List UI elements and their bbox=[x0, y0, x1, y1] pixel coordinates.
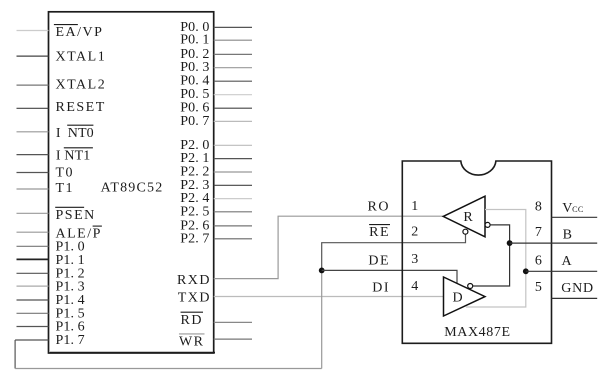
wire DE run bbox=[322, 270, 457, 283]
svg-text:I: I bbox=[56, 148, 62, 163]
wire P1.7 vertical bbox=[14, 340, 16, 369]
svg-text:TXD: TXD bbox=[178, 291, 211, 306]
wire P0.0 stub bbox=[214, 26, 252, 28]
svg-text:2: 2 bbox=[411, 224, 418, 239]
svg-text:D: D bbox=[453, 291, 464, 306]
wire INT1 stub bbox=[17, 154, 49, 156]
wire pin6 A bbox=[526, 270, 597, 272]
wire EAVP stub bbox=[17, 30, 49, 32]
svg-text:P1. 3: P1. 3 bbox=[56, 279, 85, 294]
wire P1.1 stub bbox=[17, 258, 49, 260]
wire P0.6 stub bbox=[214, 107, 252, 109]
wire P2.1 stub bbox=[214, 158, 252, 160]
wire P2.4 stub bbox=[214, 198, 252, 200]
svg-text:P0. 1: P0. 1 bbox=[180, 33, 209, 48]
svg-text:RXD: RXD bbox=[177, 273, 211, 288]
wire P2.3 stub bbox=[214, 184, 252, 186]
svg-text:RD: RD bbox=[181, 313, 203, 328]
wire P2.0 stub bbox=[214, 144, 252, 146]
svg-text:T1: T1 bbox=[56, 181, 75, 196]
wire P0.7 stub bbox=[214, 120, 252, 122]
wire pin7 B bbox=[510, 242, 598, 244]
wire XTAL2 stub bbox=[17, 84, 49, 86]
svg-text:XTAL2: XTAL2 bbox=[56, 77, 107, 92]
svg-text:AT89C52: AT89C52 bbox=[101, 181, 164, 196]
wire R noninv input to A net bbox=[466, 210, 526, 308]
wire P2.5 stub bbox=[214, 211, 252, 213]
svg-text:GND: GND bbox=[561, 281, 594, 296]
wire P0.1 stub bbox=[214, 39, 252, 41]
wire P1.7 bottom rail bbox=[15, 368, 322, 370]
svg-text:A: A bbox=[562, 254, 574, 269]
wire INT0 stub bbox=[17, 131, 49, 133]
svg-text:DI: DI bbox=[372, 281, 390, 296]
junction node B bbox=[507, 240, 513, 246]
svg-text:4: 4 bbox=[411, 279, 418, 294]
wire RE branch bbox=[322, 234, 466, 270]
driver buffer D bbox=[444, 277, 486, 316]
wire net TXD to DI bbox=[214, 296, 444, 298]
svg-text:T0: T0 bbox=[56, 166, 75, 181]
svg-text:NT0: NT0 bbox=[68, 126, 94, 141]
svg-text:6: 6 bbox=[535, 253, 542, 268]
svg-text:WR: WR bbox=[179, 334, 205, 349]
wire pin8 VCC bbox=[552, 216, 598, 218]
svg-text:I: I bbox=[56, 126, 62, 141]
svg-text:P1. 7: P1. 7 bbox=[56, 333, 85, 348]
wire P0.5 stub bbox=[214, 94, 252, 96]
svg-text:RE: RE bbox=[369, 225, 390, 240]
wire PSEN stub bbox=[17, 212, 49, 214]
bubble D inverting output bbox=[468, 284, 473, 289]
wire rail up to DE node bbox=[321, 270, 323, 368]
svg-text:P2. 5: P2. 5 bbox=[180, 204, 209, 219]
svg-text:1: 1 bbox=[411, 199, 418, 214]
svg-text:P2. 7: P2. 7 bbox=[180, 231, 209, 246]
wire T0 stub bbox=[17, 172, 49, 174]
svg-text:5: 5 bbox=[535, 280, 542, 295]
junction DE node bbox=[319, 268, 325, 274]
wire P1.0 stub bbox=[17, 245, 49, 247]
svg-text:8: 8 bbox=[535, 200, 542, 215]
wire WR stub bbox=[214, 338, 252, 340]
wire RESET stub bbox=[17, 107, 49, 109]
wire net RXD to RO bbox=[214, 216, 444, 278]
IC U1 AT89C52 body bbox=[49, 12, 214, 353]
IC U2 MAX487E body bbox=[402, 161, 551, 343]
svg-text:7: 7 bbox=[535, 225, 542, 240]
bubble R inverting input bbox=[485, 222, 490, 227]
wire R inv input to B net bbox=[473, 225, 510, 286]
svg-text:3: 3 bbox=[411, 252, 418, 267]
junction node A bbox=[523, 268, 529, 274]
wire P1.4 stub bbox=[17, 299, 49, 301]
wire P0.2 stub bbox=[214, 53, 252, 55]
wire T1 stub bbox=[17, 188, 49, 190]
svg-text:P0. 7: P0. 7 bbox=[180, 114, 209, 129]
wire pin5 GND bbox=[552, 297, 598, 299]
wire P2.2 stub bbox=[214, 171, 252, 173]
svg-text:PSEN: PSEN bbox=[56, 208, 96, 223]
svg-text:B: B bbox=[563, 228, 574, 243]
wire P1.3 stub bbox=[17, 285, 49, 287]
svg-text:R: R bbox=[463, 210, 473, 225]
svg-text:RESET: RESET bbox=[56, 100, 106, 115]
wire XTAL1 stub bbox=[17, 55, 49, 57]
svg-text:DE: DE bbox=[368, 254, 390, 269]
svg-text:EA/VP: EA/VP bbox=[56, 25, 104, 40]
wire RD stub bbox=[214, 321, 252, 323]
wire P1.6 stub bbox=[17, 326, 49, 328]
wire ALEP stub bbox=[17, 231, 49, 233]
bubble RE enable bbox=[463, 229, 468, 234]
svg-text:XTAL1: XTAL1 bbox=[56, 49, 107, 64]
receiver buffer R bbox=[443, 196, 485, 237]
wire P2.7 stub bbox=[214, 238, 252, 240]
wire P0.3 stub bbox=[214, 67, 252, 69]
svg-text:MAX487E: MAX487E bbox=[444, 325, 510, 340]
wire P2.6 stub bbox=[214, 225, 252, 227]
wire P0.4 stub bbox=[214, 80, 252, 82]
svg-text:NT1: NT1 bbox=[64, 148, 90, 163]
wire P1.2 stub bbox=[17, 272, 49, 274]
wire P1.7 stub bbox=[15, 339, 48, 341]
svg-text:RO: RO bbox=[368, 200, 390, 215]
wire P1.5 stub bbox=[17, 312, 49, 314]
